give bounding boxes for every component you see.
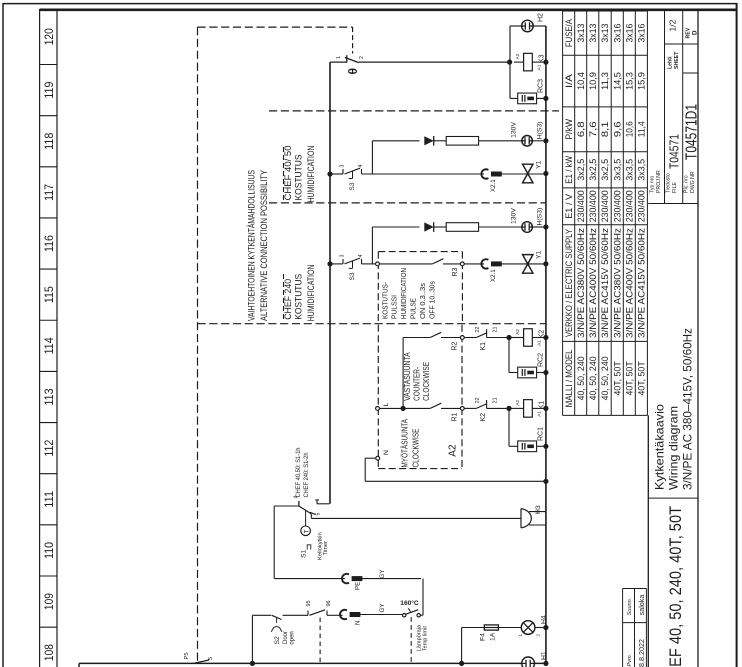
svg-text:10,9: 10,9 (588, 72, 598, 90)
wire H2 to N rail (533, 25, 546, 27)
timer program symbol (307, 545, 311, 550)
relay contact R3 (432, 259, 443, 264)
svg-text:VASTASUUNTA: VASTASUUNTA (403, 352, 412, 401)
svg-text:S1: S1 (301, 549, 308, 558)
wire N connector to thermal limit (359, 614, 402, 616)
svg-text:11,3: 11,3 (600, 72, 610, 90)
svg-text:K3: K3 (539, 54, 546, 63)
svg-text:3x3,5: 3x3,5 (613, 159, 623, 181)
wire theta contact to K3 node (359, 61, 510, 63)
sheet outer border top (3, 3, 738, 5)
door switch S2 actuator (276, 618, 278, 623)
svg-text:H4: H4 (541, 615, 548, 624)
terminal N on A2 box (376, 456, 380, 460)
svg-text:A2: A2 (515, 400, 521, 406)
wire L rail to S3-2 (330, 263, 343, 265)
wire S1-4 left down to PE row (274, 505, 299, 507)
svg-text:CHEF 240: S1-2h: CHEF 240: S1-2h (303, 452, 310, 497)
svg-text:21: 21 (493, 327, 499, 333)
svg-text:T: T (304, 529, 310, 533)
svg-text:3/N/PE AC400V 50/60Hz: 3/N/PE AC400V 50/60Hz (625, 228, 635, 338)
svg-text:40T, 50T: 40T, 50T (613, 361, 623, 396)
svg-text:GY: GY (379, 570, 386, 579)
svg-text:1A: 1A (490, 632, 497, 641)
node N wire to N rail (543, 479, 548, 484)
suppressor RC2 (518, 367, 537, 378)
svg-text:11,4: 11,4 (637, 121, 647, 137)
svg-text:3x13: 3x13 (600, 23, 610, 42)
svg-text:95: 95 (306, 601, 312, 607)
svg-text:Typ nro: Typ nro (650, 176, 656, 193)
thermal limit contact 160C (403, 614, 406, 617)
svg-text:CLOCKWISE: CLOCKWISE (422, 362, 431, 401)
node K2 coil feed (506, 335, 511, 340)
fuse F4 (484, 625, 498, 630)
svg-text:N: N (355, 621, 362, 625)
section divider dashed (CHEF 240 / relay rows) (198, 323, 547, 325)
svg-text:CHEF 240: CHEF 240 (283, 279, 293, 320)
svg-text:10,4: 10,4 (576, 72, 586, 90)
node Y1-2 N rail (543, 261, 548, 266)
node K2 N rail (543, 335, 548, 340)
node RC2 N rail (543, 370, 548, 375)
title block divider above bottom row (697, 10, 699, 667)
wire resistor2 to lamp 2 (479, 226, 522, 228)
switch S3 (CHEF 40/50) (342, 169, 344, 174)
svg-text:A1: A1 (537, 64, 543, 70)
svg-text:230/400: 230/400 (588, 190, 598, 222)
svg-text:R2: R2 (452, 341, 459, 350)
svg-text:120: 120 (42, 28, 56, 45)
svg-text:130V: 130V (511, 122, 518, 138)
svg-text:KOSTUTUS: KOSTUTUS (294, 154, 304, 200)
lamp H(S3) 1 (522, 136, 533, 147)
svg-text:Pvm.: Pvm. (627, 654, 633, 667)
svg-text:T04571D1: T04571D1 (684, 104, 701, 160)
diode V1 (424, 136, 433, 145)
svg-text:PROJ.NR: PROJ.NR (656, 170, 662, 193)
interlock contact K2 21-22 (464, 407, 476, 409)
terminal circle R3 box right (460, 262, 464, 266)
svg-text:Tiedosto: Tiedosto (666, 173, 672, 193)
wire X2.1 to Y1 valve 1 (501, 173, 546, 175)
title block label column line (648, 203, 698, 205)
svg-text:saloka: saloka (637, 595, 646, 616)
svg-text:R1: R1 (452, 412, 459, 421)
wire lamp2 to N rail (532, 226, 546, 228)
svg-text:open: open (290, 631, 296, 644)
svg-text:15,3: 15,3 (625, 72, 635, 90)
solenoid valve Y1 (branch 2) (523, 255, 533, 264)
svg-text:CHEF 40, 50, 240, 40T, 50T: CHEF 40, 50, 240, 40T, 50T (666, 506, 685, 667)
svg-text:HUMIDIFICATION: HUMIDIFICATION (306, 146, 316, 203)
svg-text:3x16: 3x16 (637, 23, 647, 42)
sheet inner border top (frame) (40, 9, 738, 12)
svg-text:S2: S2 (274, 636, 281, 645)
wire N terminal to N rail (365, 457, 375, 459)
svg-text:96: 96 (326, 601, 332, 607)
svg-text:CHEF 40,50: S1-1h: CHEF 40,50: S1-1h (295, 447, 302, 497)
svg-text:118: 118 (42, 132, 56, 149)
wire resistor to lamp 1 (479, 140, 522, 142)
sheet outer border right (736, 3, 738, 667)
wire N rail (545, 26, 547, 663)
svg-text:3x13: 3x13 (588, 23, 598, 42)
svg-text:5: 5 (316, 513, 322, 516)
svg-text:P5: P5 (184, 652, 190, 659)
node S3-1 tap on L rail (327, 171, 332, 176)
lamp H(S3) 2 (522, 222, 533, 233)
section divider dashed (CHEF 40-50 / CHEF 240) (269, 202, 546, 204)
svg-text:L: L (383, 402, 390, 406)
svg-text:N: N (383, 450, 390, 455)
svg-text:S3: S3 (349, 272, 356, 280)
riser to pilot branch 2 (371, 227, 373, 264)
svg-text:114: 114 (42, 337, 56, 354)
thermostat contact theta blade (345, 57, 359, 62)
svg-text:D: D (692, 30, 699, 35)
sheet outer border left (2, 3, 4, 667)
wire H4 to N rail (535, 627, 546, 629)
wire to S2 (252, 614, 271, 616)
svg-text:H(S3): H(S3) (537, 122, 544, 140)
svg-text:112: 112 (42, 439, 56, 456)
svg-text:115: 115 (42, 286, 56, 303)
svg-text:40, 50, 240: 40, 50, 240 (588, 356, 598, 400)
svg-text:21: 21 (493, 397, 499, 403)
wire F4 row (462, 627, 485, 629)
svg-text:HUMIDIFICATION: HUMIDIFICATION (399, 268, 408, 319)
connector X2.1 (branch 1) (481, 169, 488, 178)
svg-text:A1: A1 (537, 411, 543, 417)
svg-text:3x3,5: 3x3,5 (637, 159, 647, 181)
node L riser (401, 406, 406, 411)
wire X2.1 to Y1 valve 2 (501, 263, 546, 265)
plug pin P5.5 in bottom rail (193, 660, 209, 663)
timer motor symbol T (305, 510, 307, 527)
section divider dashed (theta / CHEF 40-50) (269, 110, 559, 112)
svg-text:40, 50, 240: 40, 50, 240 (576, 356, 586, 400)
svg-text:F4: F4 (480, 633, 487, 641)
svg-text:3: 3 (340, 165, 346, 168)
resistor R (pilot 2) (446, 223, 478, 232)
svg-text:PE: PE (355, 582, 362, 590)
wire pilot branch 1 (372, 140, 419, 142)
interlock contact K1 21-22 (464, 337, 476, 339)
svg-text:15,9: 15,9 (637, 72, 647, 90)
wire K1 to RC1 (508, 408, 510, 446)
svg-text:VAIHTOEHTOINEN KYTKENTÄMAHDOL: VAIHTOEHTOINEN KYTKENTÄMAHDOLLISUUS (247, 170, 257, 321)
overload contact 95-96 (307, 611, 309, 616)
svg-text:230/400: 230/400 (637, 190, 647, 222)
node Y1-1 N rail (543, 171, 548, 176)
svg-text:SHEET: SHEET (674, 51, 680, 69)
svg-text:H1: H1 (541, 651, 548, 660)
wire K2 to RC2 (508, 338, 510, 373)
svg-text:Y1: Y1 (536, 250, 543, 259)
svg-text:Door: Door (283, 631, 289, 644)
svg-text:A1: A1 (537, 340, 543, 346)
svg-text:E1 / V: E1 / V (564, 194, 574, 219)
svg-text:CHEF 40/ 50: CHEF 40/ 50 (283, 145, 293, 200)
thermostat contact theta terminal 1 (330, 61, 347, 63)
svg-text:X2.1: X2.1 (490, 269, 497, 282)
svg-text:A2: A2 (515, 329, 521, 335)
svg-text:KOSTUTUS-: KOSTUTUS- (380, 282, 389, 319)
lamp H2 (522, 20, 534, 32)
svg-text:14,5: 14,5 (613, 72, 623, 90)
svg-text:RC3: RC3 (538, 79, 545, 93)
model/supply data table (562, 11, 564, 415)
svg-text:8,1: 8,1 (600, 121, 610, 137)
svg-text:1: 1 (336, 56, 342, 59)
svg-text:K2: K2 (480, 413, 487, 422)
dashed link thermal limit (410, 617, 412, 663)
svg-text:3x3,5: 3x3,5 (625, 159, 635, 181)
svg-text:3/N/PE AC415V 50/60Hz: 3/N/PE AC415V 50/60Hz (637, 228, 647, 338)
svg-text:3/N/PE AC380V 50/60Hz: 3/N/PE AC380V 50/60Hz (576, 228, 586, 338)
svg-text:3x2,5: 3x2,5 (576, 159, 586, 181)
svg-text:MALLI / MODEL: MALLI / MODEL (564, 349, 574, 407)
timer switch S1 terminal 5 (310, 514, 312, 519)
door switch S2 blade (272, 615, 282, 619)
svg-text:5: 5 (208, 657, 214, 660)
wire S3-2 to pulse box (362, 263, 376, 265)
wire H2 branch top (510, 25, 522, 27)
svg-text:E1 / kW: E1 / kW (564, 155, 574, 184)
svg-text:H3: H3 (535, 505, 542, 514)
svg-text:PULSE: PULSE (409, 298, 418, 319)
svg-text:111: 111 (42, 490, 56, 507)
svg-text:3x13: 3x13 (576, 23, 586, 42)
riser S2 from bottom rail (250, 661, 255, 666)
svg-text:22: 22 (475, 327, 481, 333)
timer switch S1 terminal 4 (298, 501, 300, 506)
dashed tick CHEF 40/50 section (283, 147, 285, 200)
svg-text:40, 50, 240: 40, 50, 240 (600, 356, 610, 400)
relay coil K3 (514, 61, 524, 63)
svg-text:H2: H2 (538, 13, 545, 22)
node K3 to N rail (543, 60, 548, 65)
svg-text:H(S3): H(S3) (537, 208, 544, 226)
svg-text:X2.1: X2.1 (490, 179, 497, 192)
svg-text:40T, 50T: 40T, 50T (625, 361, 635, 396)
wire L rail corner to S1 terminal 6 (317, 503, 329, 505)
svg-text:ON 0.3..3s: ON 0.3..3s (418, 283, 427, 319)
svg-text:4: 4 (358, 165, 364, 168)
terminal L on A2 box (376, 407, 380, 411)
wire 96 to N connector (327, 614, 343, 616)
svg-text:3x16: 3x16 (613, 23, 623, 42)
wire L rail to S3-1 (330, 173, 343, 175)
svg-text:GY: GY (379, 604, 386, 613)
wire H2 branch vertical (509, 26, 511, 98)
relay output contact R1 (430, 403, 441, 408)
riser to pilot branch 1 (371, 141, 373, 174)
svg-text:COUNTER-: COUNTER- (413, 367, 422, 401)
svg-text:10,6: 10,6 (625, 121, 635, 137)
connector N (340, 610, 347, 619)
svg-text:108: 108 (42, 644, 56, 661)
svg-text:RC2: RC2 (538, 353, 545, 367)
node S3-2 tap on L rail (327, 261, 332, 266)
dashed link from enclosure to thermostat contact (352, 27, 354, 53)
wire S1-5 to buzzer H3 (311, 517, 521, 519)
svg-text:Wiring diagram: Wiring diagram (667, 406, 681, 490)
svg-text:3x2,5: 3x2,5 (588, 159, 598, 181)
svg-text:119: 119 (42, 81, 56, 98)
svg-text:Kytkentäkaavio: Kytkentäkaavio (653, 404, 667, 490)
svg-text:160°C: 160°C (400, 599, 419, 607)
svg-text:117: 117 (42, 184, 56, 201)
svg-text:4: 4 (358, 254, 364, 257)
wire S3-1 to valve (362, 173, 485, 175)
svg-text:116: 116 (42, 235, 56, 252)
svg-text:A2: A2 (448, 444, 459, 457)
buzzer H3 (520, 509, 522, 528)
svg-text:3/N/PE AC380V 50/60Hz: 3/N/PE AC380V 50/60Hz (613, 228, 623, 338)
node lamp2 N rail (543, 224, 548, 229)
svg-text:Timer: Timer (323, 541, 329, 556)
svg-text:A2: A2 (515, 53, 521, 59)
timer switch S1 blade (299, 506, 311, 514)
terminal circle R3 box left (376, 262, 380, 266)
svg-text:1: 1 (518, 634, 523, 637)
svg-text:3/N/PE AC 380–415V, 50/60Hz: 3/N/PE AC 380–415V, 50/60Hz (681, 328, 695, 490)
title block top edge (647, 415, 649, 667)
svg-text:3/N/PE AC415V 50/60Hz: 3/N/PE AC415V 50/60Hz (600, 228, 610, 338)
svg-text:9,6: 9,6 (613, 121, 623, 137)
wire S2 to 95-96 contact (283, 614, 308, 616)
svg-text:S3: S3 (349, 182, 356, 190)
riser R2 to L node (402, 338, 404, 409)
lamp H1 in bottom rail (522, 657, 535, 667)
suppressor RC1 (518, 441, 537, 452)
svg-text:18.8.2022: 18.8.2022 (637, 639, 646, 667)
svg-text:RC1: RC1 (538, 427, 545, 441)
svg-text:FUSE/A: FUSE/A (564, 19, 574, 47)
wire bottom supply rail (79, 662, 546, 664)
title block divider row2/row3 (682, 10, 684, 204)
svg-text:K1: K1 (480, 342, 487, 351)
svg-text:OFF 10..30s: OFF 10..30s (427, 281, 436, 319)
svg-text:230/400: 230/400 (625, 190, 635, 222)
node RC3 to N rail (543, 96, 548, 101)
svg-text:3/N/PE AC400V 50/60Hz: 3/N/PE AC400V 50/60Hz (588, 228, 598, 338)
diode V2 (424, 222, 433, 231)
solenoid valve Y1 (branch 1) (523, 164, 533, 173)
timer switch S1 terminal 6 tick (316, 499, 318, 504)
svg-text:40T, 50T: 40T, 50T (637, 361, 647, 396)
relay output contact R2 (403, 337, 430, 339)
relay coil K1 (509, 407, 524, 409)
lamp H4 (521, 621, 535, 635)
dashed enclosure top edge (198, 26, 353, 28)
relay coil K2 (509, 337, 524, 339)
column index band (39, 9, 41, 667)
svg-text:3x2,5: 3x2,5 (600, 159, 610, 181)
node K1 coil feed (506, 406, 511, 411)
svg-text:113: 113 (42, 388, 56, 405)
connector X2.1 (branch 2) (481, 259, 488, 268)
resistor R (pilot 1) (446, 137, 478, 146)
wire R3 to X2.1 (464, 263, 484, 265)
svg-text:2: 2 (359, 56, 365, 59)
dashed box: controller A2 (377, 325, 379, 469)
svg-text:Suunn.: Suunn. (627, 598, 633, 616)
svg-text:HUMIDIFICATION: HUMIDIFICATION (306, 264, 316, 321)
svg-text:Lehti: Lehti (668, 56, 674, 69)
svg-text:ALTERNATIVE CONNECTION POSSI: ALTERNATIVE CONNECTION POSSIBILITY (259, 170, 269, 321)
dashed tick CHEF 240 section (283, 274, 285, 319)
title block divider row1/row2 (664, 10, 666, 204)
svg-text:KOSTUTUS: KOSTUTUS (294, 274, 304, 320)
svg-text:T04571: T04571 (668, 134, 682, 169)
svg-text:R3: R3 (452, 267, 459, 276)
title block kytkentakaavio cell line (648, 497, 698, 499)
switch S3 (CHEF 240) (342, 259, 344, 264)
dashed link 95-96 down (319, 618, 321, 664)
svg-text:θ: θ (346, 68, 360, 75)
svg-text:7,6: 7,6 (588, 121, 598, 137)
svg-text:1/2: 1/2 (668, 19, 678, 31)
title block rev cell line (683, 72, 698, 74)
svg-text:6,8: 6,8 (576, 121, 586, 137)
wire lamp1 to N rail (532, 140, 546, 142)
node K3 feed junction (507, 60, 512, 65)
title block sheet cell line (665, 43, 699, 45)
svg-text:FILE: FILE (672, 182, 678, 193)
node H4 N rail (543, 625, 548, 630)
svg-text:Plc. nro: Plc. nro (684, 175, 690, 193)
wire inside R3 box (379, 263, 432, 265)
svg-text:230/400: 230/400 (576, 190, 586, 222)
svg-text:VERKKO / ELECTRIC SUPPLY: VERKKO / ELECTRIC SUPPLY (564, 229, 574, 337)
svg-text:MYÖTÄSUUNTA: MYÖTÄSUUNTA (401, 418, 410, 467)
wire pilot branch 2 (372, 226, 419, 228)
wire L rail (329, 62, 331, 504)
node K1 N rail (543, 406, 548, 411)
node RC1 N rail (543, 444, 548, 449)
dashed enclosure: alternative connection box left edge (197, 27, 199, 662)
svg-text:130V: 130V (511, 208, 518, 224)
wire PE row (274, 578, 345, 580)
node lamp1 N rail (543, 138, 548, 143)
svg-text:230/400: 230/400 (613, 190, 623, 222)
svg-text:CLOCKWISE: CLOCKWISE (412, 429, 421, 468)
svg-text:Temp limit: Temp limit (422, 626, 428, 652)
svg-text:110: 110 (42, 542, 56, 559)
date/designer box (622, 589, 624, 667)
node bottom rail to N rail (543, 661, 548, 666)
svg-text:P/kW: P/kW (564, 118, 574, 140)
svg-text:PULSSI: PULSSI (390, 295, 399, 319)
connector PE (342, 574, 349, 583)
riser GY loop (422, 579, 424, 616)
svg-text:22: 22 (475, 397, 481, 403)
svg-text:2: 2 (536, 634, 541, 637)
svg-text:109: 109 (42, 593, 56, 610)
svg-text:I/A: I/A (564, 74, 574, 88)
svg-text:Y1: Y1 (536, 160, 543, 169)
suppressor RC3 (518, 93, 537, 104)
svg-text:6: 6 (315, 499, 321, 502)
svg-text:230/400: 230/400 (600, 190, 610, 222)
svg-text:DWG NR: DWG NR (690, 171, 696, 193)
wire L terminal to R1 (380, 407, 430, 409)
wire RC3 row (510, 97, 518, 99)
dashed box: humidification pulse relay R3 (377, 252, 379, 324)
